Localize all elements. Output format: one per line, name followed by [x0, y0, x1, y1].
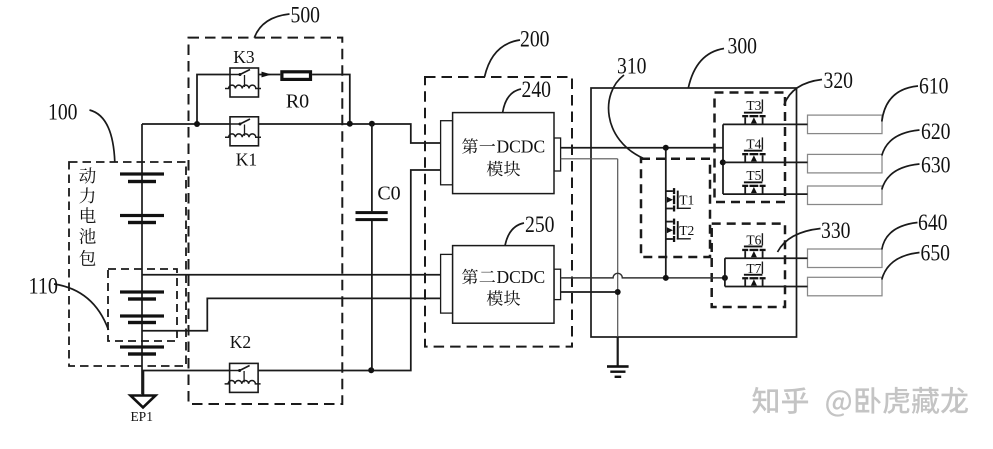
- svg-text:110: 110: [29, 274, 59, 299]
- svg-text:T5: T5: [746, 168, 761, 183]
- svg-text:T3: T3: [746, 98, 761, 113]
- svg-text:T2: T2: [679, 223, 694, 238]
- svg-text:610: 610: [919, 74, 949, 99]
- svg-text:250: 250: [525, 212, 555, 237]
- svg-text:DCDC: DCDC: [497, 137, 546, 157]
- svg-text:300: 300: [728, 34, 758, 59]
- svg-text:K3: K3: [233, 47, 255, 67]
- svg-text:DCDC: DCDC: [497, 267, 546, 287]
- svg-text:330: 330: [821, 218, 851, 243]
- svg-text:320: 320: [824, 68, 854, 93]
- svg-text:C0: C0: [377, 183, 400, 205]
- svg-text:240: 240: [522, 77, 552, 102]
- svg-text:650: 650: [921, 240, 951, 265]
- svg-text:T1: T1: [679, 193, 694, 208]
- svg-text:630: 630: [921, 153, 951, 178]
- svg-text:640: 640: [918, 210, 948, 235]
- svg-text:K1: K1: [236, 150, 257, 170]
- svg-text:EP1: EP1: [130, 409, 153, 424]
- svg-text:100: 100: [48, 100, 78, 125]
- svg-text:R0: R0: [286, 91, 309, 113]
- svg-text:T6: T6: [746, 233, 761, 248]
- svg-text:310: 310: [617, 54, 647, 79]
- svg-text:500: 500: [291, 3, 321, 28]
- svg-text:620: 620: [921, 119, 951, 144]
- svg-text:T4: T4: [746, 137, 761, 152]
- svg-text:T7: T7: [746, 261, 761, 276]
- svg-text:200: 200: [520, 27, 550, 52]
- svg-text:K2: K2: [230, 332, 251, 352]
